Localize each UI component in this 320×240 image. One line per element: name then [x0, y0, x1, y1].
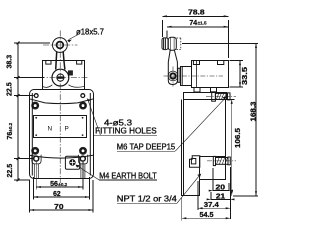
svg-text:M6 TAP DEEP15: M6 TAP DEEP15	[117, 143, 176, 152]
svg-text:168.3: 168.3	[250, 101, 257, 121]
svg-text:M4 EARTH BOLT: M4 EARTH BOLT	[99, 171, 157, 180]
svg-text:70: 70	[54, 204, 63, 211]
svg-text:106.5: 106.5	[235, 128, 242, 148]
svg-text:38.3: 38.3	[7, 55, 14, 69]
svg-text:N: N	[48, 126, 53, 133]
svg-text:22.5: 22.5	[7, 82, 14, 96]
svg-text:21: 21	[216, 193, 225, 200]
svg-text:33.5: 33.5	[242, 67, 249, 85]
svg-text:56: 56	[50, 181, 58, 188]
svg-text:ø18x5.7: ø18x5.7	[76, 28, 104, 37]
svg-text:22.5: 22.5	[7, 164, 14, 178]
svg-text:P: P	[65, 126, 69, 133]
svg-text:FITTING HOLES: FITTING HOLES	[95, 127, 157, 136]
svg-text:54.5: 54.5	[200, 212, 214, 219]
svg-text:±0.2: ±0.2	[58, 182, 67, 187]
svg-text:±1.5: ±1.5	[198, 21, 207, 26]
svg-text:74: 74	[189, 20, 197, 27]
svg-text:37.4: 37.4	[204, 202, 219, 209]
svg-text:62: 62	[53, 191, 61, 198]
svg-text:NPT 1/2 or 3/4: NPT 1/2 or 3/4	[117, 195, 178, 204]
svg-text:76±0.2: 76±0.2	[7, 122, 14, 139]
svg-text:78.8: 78.8	[188, 9, 205, 16]
svg-text:20: 20	[216, 185, 226, 192]
